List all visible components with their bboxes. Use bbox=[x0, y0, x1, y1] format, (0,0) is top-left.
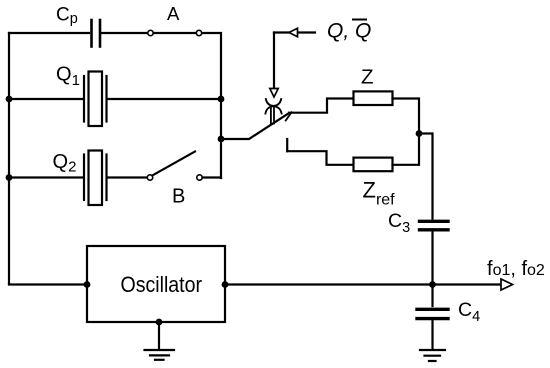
junction node oscillator output bbox=[222, 281, 229, 288]
crystal Q1 bbox=[84, 72, 107, 127]
junction node on bus (Q1 row) bbox=[218, 96, 225, 103]
svg-text:Oscillator: Oscillator bbox=[121, 272, 203, 297]
switch A (closed) bbox=[148, 30, 202, 35]
svg-text:B: B bbox=[172, 186, 185, 208]
upper throw contact tick bbox=[286, 112, 292, 120]
switch B (open) bbox=[147, 175, 202, 180]
wire: node to C3 branch bbox=[419, 134, 433, 219]
junction node oscillator ground pin bbox=[156, 319, 163, 326]
wire: lower branch to Zref bbox=[287, 151, 353, 165]
svg-text:A: A bbox=[167, 3, 180, 24]
wire: C3 to output row bbox=[431, 232, 433, 285]
wire: switch A to right corner, down to node bbox=[202, 33, 221, 178]
wire: switch B to bus x=221 bbox=[203, 176, 222, 178]
junction node Z/Zref bbox=[416, 130, 423, 137]
wire: control vertical drop bbox=[273, 33, 275, 89]
junction node on left bus (Q2 row) bbox=[6, 174, 13, 181]
wire: input row into oscillator bbox=[9, 283, 87, 285]
wire: oscillator output row bbox=[225, 283, 501, 285]
impedance Zref bbox=[354, 158, 393, 172]
lower throw contact tick bbox=[286, 139, 288, 151]
wire: Z to right vertical bbox=[393, 99, 420, 134]
open arrowhead pointing down bbox=[270, 89, 278, 98]
wire: upper branch to Z bbox=[289, 99, 354, 113]
svg-text:Z: Z bbox=[361, 65, 374, 88]
junction node on bus (SPDT common) bbox=[218, 136, 225, 143]
wire: Cp to switch A bbox=[102, 32, 148, 34]
wire: left vertical bus bbox=[8, 33, 10, 284]
capacitor C3 bbox=[420, 221, 449, 230]
wire: Q1 row bbox=[9, 98, 83, 100]
capacitor Cp bbox=[92, 20, 101, 47]
wire: C4 stem bbox=[431, 285, 433, 307]
wire: C4 to ground bbox=[431, 321, 433, 350]
wire: control line with left-pointing open arrow bbox=[298, 31, 316, 33]
junction node on left bus (Q1 row) bbox=[6, 96, 13, 103]
capacitor C4 bbox=[417, 309, 448, 318]
junction node output/C3/C4 bbox=[429, 281, 436, 288]
ground (below C4) bbox=[420, 350, 445, 361]
crystal Q2 bbox=[84, 151, 107, 206]
junction node oscillator input bbox=[84, 281, 91, 288]
wire: oscillator ground stem bbox=[158, 322, 160, 349]
output open arrowhead fo1,fo2 bbox=[501, 279, 513, 290]
ground (below oscillator) bbox=[145, 350, 175, 360]
wire: Zref to right vertical bbox=[393, 134, 420, 165]
impedance Z bbox=[354, 91, 393, 105]
wire: top row from bus to Cp bbox=[9, 32, 89, 34]
wire: Q2 row to switch B bbox=[9, 176, 83, 178]
electronic switch actuator symbol (arcs + double link) bbox=[265, 99, 281, 124]
SPDT wiper blade bbox=[221, 114, 288, 139]
svg-text:Q, Q: Q, Q bbox=[327, 20, 371, 43]
oscillator U1 bbox=[87, 246, 225, 322]
svg-text:fo1, fo2: fo1, fo2 bbox=[487, 258, 545, 280]
